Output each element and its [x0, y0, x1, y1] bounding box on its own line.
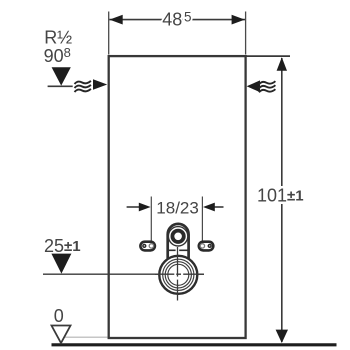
floor line — [52, 343, 337, 346]
dimension 101: down arrowhead — [276, 330, 288, 343]
dimension 101: up arrowhead — [277, 57, 287, 71]
panel top extension line (to right) — [245, 55, 290, 57]
supply slot (vertical stadium / keyhole top) — [168, 224, 189, 268]
level 25 line / horizontal centerline of drain (with centerline gaps) — [43, 273, 174, 275]
drain ring 1 — [163, 259, 194, 290]
dimension 18/23: right arrow tail — [215, 206, 224, 208]
supply ring thick ring — [172, 231, 183, 242]
slot center dashes — [167, 249, 176, 251]
right water-supply wavy lines — [259, 81, 275, 92]
dimension 48.5: dimension line — [109, 19, 245, 21]
drain ring 2 — [165, 262, 191, 288]
svg-text:25±1: 25±1 — [44, 236, 81, 256]
vertical centerline of drain/supply — [177, 247, 179, 301]
dimension 101: vertical dimension line — [281, 58, 283, 342]
dimension 18/23: left arrow tail — [127, 206, 140, 208]
svg-text:101±1: 101±1 — [257, 186, 304, 206]
redraw horizontal centerline across drain (over rings) — [155, 273, 204, 275]
dimension 48.5: left arrowhead — [110, 15, 123, 25]
bottom gray line left of panel — [64, 336, 108, 338]
drain ring 3 — [168, 264, 189, 285]
fixing slot left: faint circle — [149, 244, 153, 248]
left water-supply wavy arrow — [75, 81, 91, 92]
fixing slot right: bold ring — [208, 245, 211, 248]
dimension 48.5: left extension line — [108, 12, 110, 55]
fixing slot right: faint circle — [200, 244, 204, 248]
right water-supply arrowhead — [247, 80, 260, 92]
level 25: filled triangle — [51, 254, 71, 274]
dimension 18/23: right extension line — [201, 197, 203, 247]
drain circle outer — [159, 256, 197, 294]
level triangle (filled) top-left — [52, 67, 71, 85]
dimension 18/23: right arrowhead — [203, 203, 215, 212]
svg-text:18/23: 18/23 — [156, 199, 199, 218]
left water-supply arrowhead — [93, 79, 107, 90]
supply ring outer thin circle — [168, 227, 187, 246]
svg-text:0: 0 — [54, 306, 64, 326]
dimension 48.5: right arrowhead — [232, 15, 245, 25]
line under top-left triangle — [48, 85, 73, 87]
fixing slot left: bold ring — [143, 245, 146, 248]
dimension 18/23: left extension line — [150, 197, 152, 247]
fixing slot left (oval) — [140, 242, 155, 251]
dimension 48.5: right extension line — [245, 12, 247, 55]
dimension 18/23: left arrowhead — [139, 203, 151, 212]
level 0: open triangle — [52, 326, 71, 344]
fixing slot right (oval) — [199, 242, 214, 251]
panel (main rectangle) — [109, 56, 246, 338]
